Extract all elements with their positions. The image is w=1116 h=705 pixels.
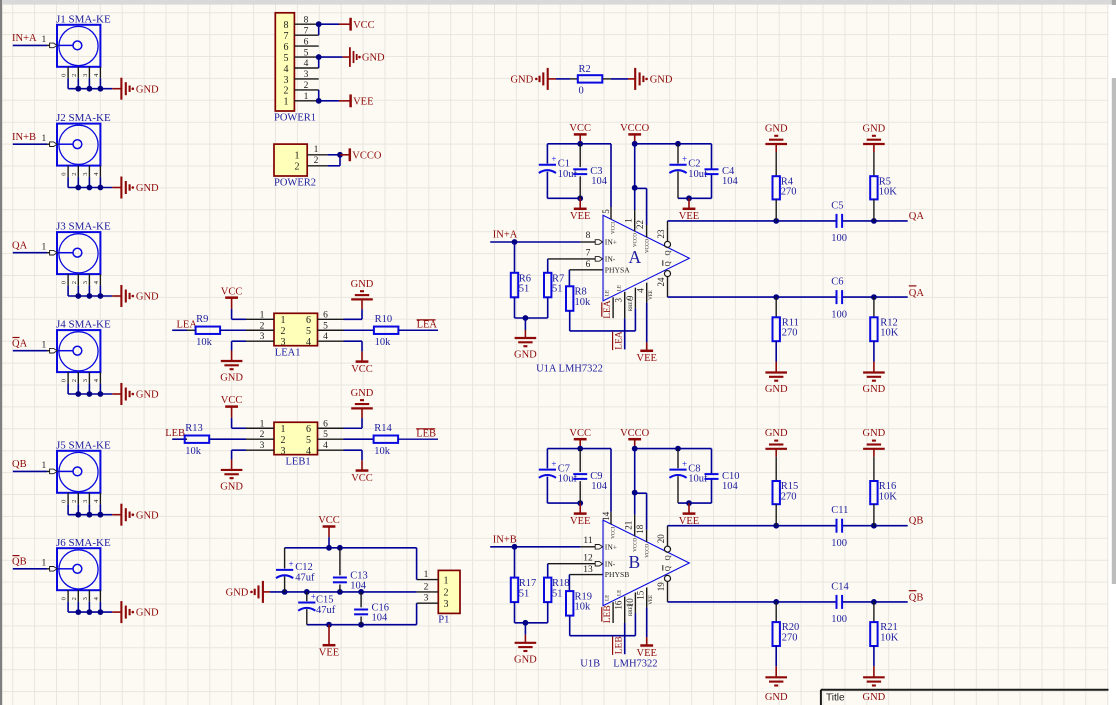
- pin 10 (LE): [624, 597, 626, 623]
- svg-text:GND: GND: [863, 692, 886, 703]
- svg-text:3: 3: [613, 298, 623, 303]
- svg-text:QB: QB: [12, 557, 27, 568]
- capacitor C16 104: [360, 592, 362, 607]
- svg-text:3: 3: [82, 500, 89, 503]
- capacitor C13 104: [339, 548, 341, 576]
- ground GND at J1: [112, 88, 121, 90]
- svg-text:GND: GND: [136, 608, 159, 619]
- svg-text:VEE: VEE: [636, 648, 656, 659]
- svg-text:3: 3: [82, 597, 89, 600]
- pin 11 IN+: [581, 546, 595, 548]
- svg-text:VCCO: VCCO: [633, 537, 638, 551]
- svg-text:R10: R10: [375, 314, 393, 325]
- ground GND below R12: [863, 371, 885, 373]
- svg-text:1: 1: [42, 243, 47, 253]
- svg-text:10k: 10k: [374, 446, 391, 457]
- svg-text:RREF: RREF: [629, 603, 634, 616]
- svg-text:C14: C14: [831, 581, 849, 592]
- pin 23 Q output: [664, 241, 670, 247]
- net label IN+A wire to J1 pin 1: [13, 44, 47, 46]
- svg-text:GND: GND: [510, 75, 533, 86]
- ground GND at J4: [112, 393, 121, 395]
- svg-text:3: 3: [82, 172, 89, 175]
- svg-text:IN-: IN-: [605, 255, 616, 264]
- ground GND at POWER1: [343, 56, 350, 58]
- svg-text:QB: QB: [909, 516, 924, 527]
- wire J6 shield bus: [68, 611, 112, 613]
- wire R6-R7 to GND: [515, 317, 548, 319]
- svg-text:3: 3: [82, 74, 89, 77]
- power VEE below C7: [579, 503, 581, 513]
- svg-text:21: 21: [624, 521, 634, 530]
- power VCC above P1 section: [328, 527, 330, 538]
- svg-text:VCCO: VCCO: [633, 233, 638, 247]
- svg-text:LEB: LEB: [603, 605, 613, 623]
- svg-text:J1 SMA-KE: J1 SMA-KE: [56, 13, 111, 25]
- svg-text:VEE: VEE: [319, 648, 339, 659]
- wire VCCO rail of C8: [635, 448, 712, 450]
- resistor R2: [578, 75, 603, 82]
- LEB1 pins: [246, 427, 274, 429]
- svg-text:1: 1: [42, 559, 47, 569]
- svg-text:7: 7: [304, 26, 309, 36]
- pin 19 Q-bar output: [664, 575, 670, 581]
- ground GND right of R2: [628, 78, 635, 80]
- svg-text:47uf: 47uf: [295, 572, 315, 583]
- svg-text:VCC: VCC: [318, 515, 340, 526]
- capacitor C12 47uf: [284, 548, 286, 569]
- svg-text:104: 104: [591, 481, 608, 492]
- wire R8 to pin 4: [570, 330, 636, 332]
- svg-text:VCC: VCC: [569, 428, 591, 439]
- svg-text:104: 104: [591, 176, 608, 187]
- svg-text:VCC: VCC: [221, 395, 243, 406]
- wire P1 pin1 to VCC rail: [416, 548, 418, 580]
- svg-text:C6: C6: [831, 277, 843, 288]
- svg-text:7: 7: [586, 249, 591, 259]
- svg-text:QB: QB: [909, 593, 924, 604]
- svg-text:GND: GND: [220, 373, 243, 384]
- svg-text:+: +: [682, 154, 687, 164]
- svg-text:10K: 10K: [879, 491, 898, 502]
- svg-text:GND: GND: [863, 384, 886, 395]
- J1 shield pins 0/2/3/4: [67, 67, 69, 79]
- svg-text:B: B: [629, 552, 641, 572]
- svg-text:6: 6: [306, 424, 311, 435]
- svg-text:LEA: LEA: [177, 319, 198, 330]
- svg-text:RREF: RREF: [629, 299, 634, 312]
- pin 16 (LE): [612, 602, 614, 623]
- capacitor C7 10uf: [539, 469, 556, 471]
- wire POWER1 pins 4+5 to GND: [319, 56, 343, 58]
- resistor R16 10K: [873, 449, 875, 457]
- svg-text:0: 0: [61, 500, 68, 503]
- svg-text:6: 6: [323, 310, 328, 320]
- resistor R13: [185, 438, 187, 440]
- svg-text:IN+A: IN+A: [12, 33, 37, 44]
- power VEE at POWER1: [339, 100, 351, 102]
- svg-text:GND: GND: [863, 428, 886, 439]
- wire LEA1 pin 6 to GND: [344, 318, 363, 320]
- svg-text:1: 1: [42, 461, 47, 471]
- svg-text:11: 11: [583, 536, 592, 546]
- capacitor C11 100: [836, 519, 838, 533]
- svg-text:LEA: LEA: [417, 320, 438, 331]
- svg-text:0: 0: [579, 86, 584, 97]
- resistor R11 270: [775, 297, 777, 317]
- J6 shield pins 0/2/3/4: [67, 590, 69, 602]
- net label IN+A wire to pin 8: [490, 241, 580, 243]
- svg-text:270: 270: [782, 328, 798, 339]
- resistor R9: [187, 329, 196, 331]
- power VCCO above C8: [634, 439, 636, 448]
- wire POWER1 pins 1+2 to VEE: [319, 100, 339, 102]
- net label QA wire to J3 pin 1: [13, 252, 47, 254]
- svg-text:16: 16: [613, 600, 623, 610]
- wire Q output row: [668, 220, 837, 222]
- J3 shield pins 0/2/3/4: [67, 274, 69, 286]
- svg-text:6: 6: [306, 315, 311, 326]
- svg-text:10k: 10k: [196, 337, 213, 348]
- svg-text:GND: GND: [136, 183, 159, 194]
- svg-text:19: 19: [656, 582, 666, 592]
- svg-text:4: 4: [284, 64, 289, 75]
- svg-text:+: +: [682, 459, 687, 469]
- svg-text:3: 3: [444, 599, 449, 610]
- resistor R6 51: [514, 242, 516, 273]
- wire J1 shield bus: [68, 88, 112, 90]
- svg-text:100: 100: [831, 538, 847, 549]
- capacitor C2 10uf: [677, 144, 679, 164]
- svg-text:1: 1: [260, 419, 265, 429]
- svg-text:51: 51: [519, 588, 530, 599]
- ground GND upper-right of LEA1: [351, 298, 373, 300]
- svg-text:0: 0: [61, 379, 68, 382]
- svg-text:2: 2: [424, 582, 429, 592]
- svg-text:104: 104: [350, 581, 367, 592]
- capacitor C6 100: [836, 290, 838, 304]
- svg-text:20: 20: [656, 534, 666, 544]
- wire VCCO rail of C2: [635, 143, 712, 145]
- svg-text:1: 1: [260, 310, 265, 320]
- svg-text:VCC: VCC: [353, 20, 375, 31]
- net label QA wire to J4 pin 1: [13, 350, 47, 352]
- svg-text:GND: GND: [362, 53, 385, 64]
- pin 13 PHYS: [569, 574, 602, 576]
- ground GND at J2: [112, 187, 121, 189]
- svg-text:C5: C5: [831, 200, 843, 211]
- pin 1 input arrow of J4: [50, 348, 57, 353]
- svg-text:5: 5: [601, 209, 611, 214]
- pin 1 (VCCO): [634, 210, 636, 232]
- power VCC upper-left of LEA1: [231, 298, 233, 309]
- svg-text:1: 1: [42, 341, 47, 351]
- wire LEA1 pin 3 to GND: [232, 340, 246, 342]
- power VCC at POWER1: [339, 23, 351, 25]
- power VEE below C8: [688, 503, 690, 513]
- svg-text:0: 0: [61, 74, 68, 77]
- svg-text:R9: R9: [196, 314, 208, 325]
- svg-text:+: +: [551, 154, 556, 164]
- svg-text:VCCI: VCCI: [611, 526, 616, 538]
- wire LEB1 pin 6 to GND: [344, 427, 363, 429]
- pin 14 (VCCI): [610, 449, 612, 512]
- LEA1 pins: [246, 318, 274, 320]
- pin 7 IN-: [548, 258, 595, 260]
- svg-text:U1B: U1B: [580, 659, 600, 670]
- wire R17-R18 to GND: [515, 622, 548, 624]
- svg-text:IN+: IN+: [605, 542, 617, 551]
- pin 3 (LE): [612, 297, 614, 318]
- svg-text:51: 51: [519, 284, 530, 295]
- net label IN+B wire to pin 11: [490, 546, 580, 548]
- svg-text:2: 2: [314, 156, 319, 166]
- svg-text:12: 12: [583, 553, 593, 563]
- svg-text:5: 5: [323, 430, 328, 440]
- svg-text:6: 6: [284, 42, 289, 53]
- wire GND to R2: [556, 78, 570, 80]
- svg-text:LEA: LEA: [614, 331, 624, 350]
- ground GND above R16: [863, 448, 885, 450]
- svg-text:3: 3: [304, 70, 309, 80]
- svg-text:VCC: VCC: [351, 473, 373, 484]
- svg-text:47uf: 47uf: [316, 605, 336, 616]
- svg-text:10K: 10K: [880, 632, 899, 643]
- wire LEA1 pin 5 to R10: [344, 329, 374, 331]
- pin VEE of U1A: [646, 283, 648, 303]
- J2 shield pins 0/2/3/4: [67, 166, 69, 178]
- svg-text:J2 SMA-KE: J2 SMA-KE: [56, 112, 111, 124]
- svg-text:2: 2: [71, 74, 78, 77]
- pin 15 (HYSB): [634, 593, 636, 614]
- svg-text:6: 6: [304, 37, 309, 47]
- svg-text:270: 270: [781, 491, 797, 502]
- wire VCCO to pins 21/18: [634, 449, 636, 515]
- capacitor C8 10uf: [677, 449, 679, 469]
- wire J3 shield bus: [68, 295, 112, 297]
- svg-text:IN+: IN+: [605, 238, 617, 247]
- svg-text:51: 51: [552, 588, 563, 599]
- svg-text:GND: GND: [351, 388, 374, 399]
- svg-text:3: 3: [281, 337, 286, 348]
- svg-text:2: 2: [304, 81, 309, 91]
- svg-text:14: 14: [601, 511, 611, 521]
- svg-text:GND: GND: [514, 654, 537, 665]
- pin 12 IN-: [548, 563, 595, 565]
- pin 1 input arrow of J3: [50, 250, 57, 255]
- svg-text:100: 100: [831, 309, 847, 320]
- svg-text:R13: R13: [185, 423, 203, 434]
- wire R19 to pin 15: [570, 635, 636, 637]
- svg-text:VEE: VEE: [649, 595, 654, 605]
- svg-text:LE: LE: [617, 285, 622, 291]
- svg-text:P1: P1: [438, 615, 449, 626]
- svg-text:3: 3: [82, 281, 89, 284]
- svg-text:13: 13: [583, 565, 593, 575]
- wire VCC top rail: [328, 537, 330, 548]
- wire VCC to LEB1 pin 1: [231, 418, 233, 428]
- svg-text:J5 SMA-KE: J5 SMA-KE: [56, 439, 111, 451]
- svg-text:Q: Q: [664, 566, 672, 571]
- svg-text:10k: 10k: [575, 602, 592, 613]
- POWER2 pins 1-2: [307, 154, 327, 156]
- pin 8 IN+: [581, 241, 595, 243]
- svg-text:GND: GND: [226, 588, 249, 599]
- svg-text:24: 24: [656, 277, 666, 287]
- pin 22 (VCCO): [646, 225, 648, 237]
- svg-text:2: 2: [71, 172, 78, 175]
- svg-text:2: 2: [444, 588, 449, 599]
- svg-text:LEA: LEA: [603, 300, 613, 319]
- svg-text:2: 2: [284, 86, 289, 97]
- svg-text:104: 104: [372, 613, 389, 624]
- svg-text:8: 8: [586, 231, 591, 241]
- wire LEB1 pin 4 to VCC: [344, 449, 363, 451]
- net label LEB (inverted) right of R14: [398, 438, 438, 440]
- svg-text:Q: Q: [664, 261, 672, 266]
- svg-text:3: 3: [284, 75, 289, 86]
- svg-text:IN+A: IN+A: [493, 230, 518, 241]
- svg-text:QA: QA: [909, 211, 925, 222]
- svg-text:270: 270: [781, 187, 797, 198]
- pin 5 (VCCI): [610, 144, 612, 207]
- resistor R5 10K: [873, 144, 875, 152]
- wire VCC rail of C1: [547, 143, 611, 145]
- connector P1: [438, 570, 460, 613]
- svg-text:GND: GND: [514, 350, 537, 361]
- op-amp U1A triangle: [603, 215, 689, 301]
- svg-text:1: 1: [304, 92, 309, 102]
- svg-text:IN-: IN-: [605, 559, 616, 568]
- svg-text:LMH7322: LMH7322: [613, 659, 657, 670]
- capacitor C1 10uf: [539, 164, 556, 166]
- svg-text:LE: LE: [605, 290, 610, 296]
- power VEE below U1B: [646, 637, 648, 645]
- svg-text:A: A: [629, 247, 642, 267]
- svg-text:1: 1: [424, 570, 429, 580]
- svg-text:1: 1: [281, 315, 286, 326]
- svg-text:2: 2: [260, 430, 265, 440]
- capacitor C10 104: [705, 473, 719, 475]
- svg-text:8: 8: [284, 20, 289, 31]
- wire LEB1 pin 3 to GND: [232, 449, 246, 451]
- svg-text:3: 3: [260, 441, 265, 451]
- svg-text:15: 15: [635, 590, 645, 600]
- component LEB1: [274, 422, 318, 454]
- svg-text:C11: C11: [831, 505, 848, 516]
- resistor R10: [374, 327, 399, 334]
- svg-text:1: 1: [314, 145, 319, 155]
- svg-text:0: 0: [61, 172, 68, 175]
- wire J5 shield bus: [68, 514, 112, 516]
- svg-text:22: 22: [635, 220, 645, 229]
- svg-text:PHYSA: PHYSA: [605, 265, 630, 274]
- svg-text:LEB1: LEB1: [286, 456, 311, 467]
- pin 21 (VCCO): [634, 515, 636, 537]
- pin 18 (VCCO): [646, 530, 648, 542]
- svg-text:10k: 10k: [575, 297, 592, 308]
- svg-text:+: +: [551, 459, 556, 469]
- svg-text:1: 1: [624, 218, 634, 223]
- svg-text:1: 1: [284, 97, 289, 108]
- wire VCC rail of C7: [547, 448, 611, 450]
- svg-text:GND: GND: [351, 279, 374, 290]
- svg-text:GND: GND: [765, 428, 788, 439]
- svg-text:2: 2: [260, 321, 265, 331]
- svg-text:1: 1: [295, 151, 300, 162]
- pin 9 (LE): [624, 292, 626, 318]
- svg-text:LEB: LEB: [614, 636, 624, 654]
- svg-text:R14: R14: [374, 423, 392, 434]
- svg-text:5: 5: [306, 326, 311, 337]
- svg-text:10K: 10K: [880, 328, 899, 339]
- resistor R7 51: [547, 259, 549, 273]
- J4 shield pins 0/2/3/4: [67, 372, 69, 384]
- connector POWER2: [274, 144, 307, 176]
- svg-text:LEB: LEB: [165, 428, 185, 439]
- power VEE below C1: [579, 198, 581, 209]
- capacitor C4 104: [705, 168, 719, 170]
- svg-text:8: 8: [304, 15, 309, 25]
- ground GND upper-right of LEB1: [351, 407, 373, 409]
- svg-text:2: 2: [295, 162, 300, 173]
- svg-text:QA: QA: [909, 288, 925, 299]
- net label LEB left of R13: [172, 438, 187, 440]
- power VCC above C7: [579, 439, 581, 448]
- J5 shield pins 0/2/3/4: [67, 493, 69, 505]
- svg-text:VCC: VCC: [351, 364, 373, 375]
- svg-text:3: 3: [260, 332, 265, 342]
- capacitor C15 47uf: [306, 592, 308, 601]
- svg-text:LE: LE: [617, 590, 622, 596]
- svg-text:2: 2: [281, 435, 286, 446]
- ground GND below R17: [515, 642, 537, 644]
- svg-text:VCCO: VCCO: [620, 123, 650, 134]
- svg-text:6: 6: [323, 419, 328, 429]
- wire LEB1 pin 5 to R14: [344, 438, 374, 440]
- svg-text:6: 6: [586, 260, 591, 270]
- ground GND above R5: [863, 143, 885, 145]
- svg-text:LE: LE: [605, 595, 610, 601]
- wire Q output row: [668, 525, 837, 527]
- ground GND left of P1 section: [263, 591, 270, 593]
- wire J4 shield bus: [68, 393, 112, 395]
- svg-text:100: 100: [831, 233, 847, 244]
- svg-text:1: 1: [444, 575, 449, 586]
- svg-text:R2: R2: [579, 64, 591, 75]
- svg-text:GND: GND: [765, 692, 788, 703]
- svg-text:J4 SMA-KE: J4 SMA-KE: [56, 319, 111, 331]
- wire LEA1 pin 4 to VCC: [344, 340, 363, 342]
- wire R9 to LEA1 pin 2: [220, 329, 246, 331]
- ground GND below R21: [863, 676, 885, 678]
- resistor R17 51: [514, 547, 516, 578]
- ground GND below R11: [765, 371, 787, 373]
- pin 1 input arrow of J2: [50, 142, 57, 147]
- net label IN+B wire to J2 pin 1: [13, 143, 47, 145]
- svg-text:VCCO: VCCO: [645, 543, 650, 557]
- net label QB wire to J5 pin 1: [13, 470, 47, 472]
- power VCC lower-right of LEB1: [361, 460, 363, 470]
- svg-text:10k: 10k: [375, 337, 392, 348]
- svg-text:104: 104: [722, 176, 739, 187]
- svg-text:Title: Title: [826, 692, 845, 703]
- svg-text:5: 5: [306, 435, 311, 446]
- pin VEE of U1B: [646, 588, 648, 608]
- resistor R12 10K: [873, 297, 875, 317]
- svg-text:VCCO: VCCO: [645, 239, 650, 253]
- svg-text:VCCO: VCCO: [620, 428, 650, 439]
